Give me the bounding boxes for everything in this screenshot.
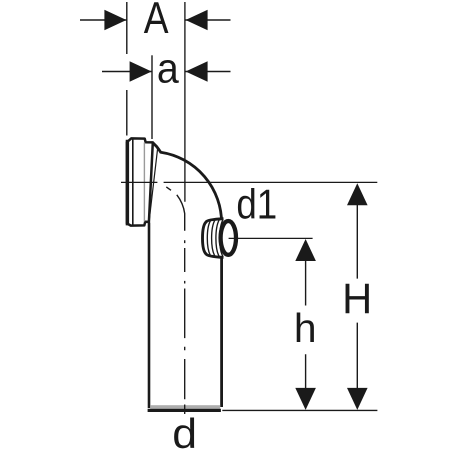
ground baseline — [222, 409, 377, 411]
nipple rib 4 — [220, 220, 223, 257]
socket taper silhouette — [149, 147, 158, 220]
nipple front face — [221, 221, 236, 255]
nipple rib 3 — [216, 220, 219, 257]
inner bend curve — [177, 195, 185, 231]
horizontal centerline — [121, 181, 377, 183]
h arrow bottom — [295, 388, 316, 410]
socket rib line 1 — [132, 140, 134, 225]
h extension line — [229, 237, 313, 239]
svg-text:d: d — [172, 411, 197, 450]
H arrow bottom — [347, 388, 368, 410]
d1 nipple body fill — [203, 219, 231, 258]
h dimension line — [305, 258, 307, 390]
vertical centerline top extension — [184, 2, 186, 202]
bend body fill — [149, 142, 222, 409]
dimension a arrow right — [186, 61, 208, 82]
svg-text:a: a — [157, 45, 179, 92]
svg-text:H: H — [342, 275, 372, 322]
pipe left edge — [148, 223, 151, 409]
dimension a line left — [102, 71, 152, 73]
socket left face thick edge — [126, 140, 129, 226]
extension line A left — [126, 2, 128, 136]
pipe bottom edge — [148, 409, 221, 412]
label d — [172, 411, 197, 450]
nipple rib 1 — [207, 220, 210, 255]
socket — [127, 138, 153, 225]
extension line a left — [151, 55, 153, 139]
socket rib line gray — [143, 143, 145, 222]
dimension a arrow left — [130, 61, 152, 82]
dimension A arrow left — [104, 10, 126, 31]
dimension A arrow right — [186, 10, 208, 31]
vertical centerline dash-dot — [184, 240, 186, 414]
dimension A line left — [80, 19, 127, 21]
label a — [157, 45, 179, 92]
label H — [342, 275, 372, 322]
dimension A line right — [186, 19, 231, 21]
label A — [144, 0, 169, 43]
svg-text:A: A — [144, 0, 169, 43]
pipe end face gray — [150, 405, 220, 409]
nipple rib 2 — [212, 220, 215, 256]
svg-text:d1: d1 — [236, 181, 277, 228]
svg-text:h: h — [294, 305, 317, 351]
H arrow top — [347, 183, 368, 205]
bend outer curve — [153, 142, 222, 407]
h arrow top — [295, 239, 316, 261]
dimension a line right — [186, 71, 231, 73]
H dimension line — [356, 202, 358, 390]
d1 nipple outline — [203, 219, 224, 258]
label d1 — [236, 181, 277, 228]
label h — [294, 305, 317, 351]
inner bend curve dash — [166, 187, 171, 190]
